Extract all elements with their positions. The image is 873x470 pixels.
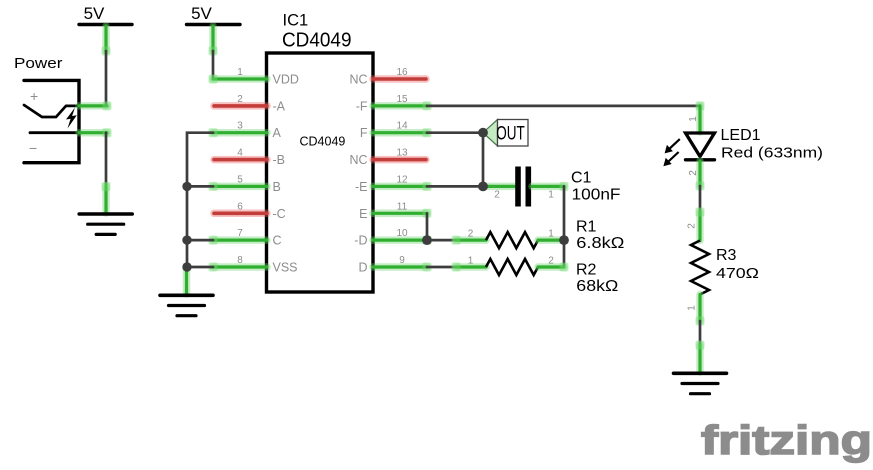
wire pin14 to OUT node	[427, 131, 483, 134]
svg-text:-D: -D	[354, 234, 367, 248]
capacitor C1	[485, 167, 621, 207]
wire LED to R3	[699, 186, 702, 212]
svg-text:R1: R1	[576, 219, 597, 236]
svg-text:2: 2	[237, 94, 243, 105]
svg-text:VSS: VSS	[273, 261, 298, 275]
power symbol 5V (left)	[79, 4, 132, 56]
wire stub to pin 8	[187, 266, 213, 269]
pin 10 -D	[354, 228, 431, 248]
svg-text:R2: R2	[576, 262, 597, 279]
svg-text:3: 3	[237, 121, 243, 132]
svg-text:5V: 5V	[191, 4, 212, 23]
svg-text:6.8kΩ: 6.8kΩ	[576, 235, 624, 252]
ground (under IC VSS)	[160, 268, 213, 316]
wire stub to pin 7	[187, 239, 213, 242]
svg-text:D: D	[358, 261, 367, 275]
svg-text:+: +	[30, 88, 38, 104]
svg-text:7: 7	[237, 228, 243, 239]
svg-text:−: −	[29, 140, 37, 156]
svg-text:1: 1	[687, 305, 698, 311]
svg-text:1: 1	[548, 190, 554, 201]
svg-text:B: B	[273, 180, 281, 194]
resistor R1	[452, 219, 625, 253]
svg-text:68kΩ: 68kΩ	[576, 278, 618, 295]
svg-text:1: 1	[548, 229, 554, 240]
wire pin11 down to pin10 node	[426, 213, 429, 240]
wire node to R1	[427, 239, 456, 242]
resistor R2	[452, 255, 619, 295]
junction at pin 5 (bus B)	[182, 182, 191, 191]
svg-text:A: A	[273, 126, 282, 140]
pin 3 A	[209, 121, 282, 141]
svg-text:fritzing: fritzing	[701, 417, 872, 463]
svg-text:E: E	[359, 207, 367, 221]
wire pin9 to R2	[427, 266, 456, 269]
svg-text:2: 2	[687, 223, 698, 229]
svg-text:5: 5	[237, 174, 243, 185]
svg-text:13: 13	[396, 148, 408, 159]
svg-text:6: 6	[237, 201, 243, 212]
svg-text:-A: -A	[273, 99, 286, 113]
ground (under power)	[79, 182, 132, 234]
wire pin12 to node	[427, 185, 483, 188]
wire bus A-B-C-VSS (left vertical)	[187, 133, 213, 267]
ground (under R3)	[674, 341, 727, 394]
svg-text:OUT: OUT	[496, 123, 525, 145]
svg-text:-E: -E	[355, 180, 368, 194]
svg-text:2: 2	[494, 190, 500, 201]
op IC1 CD4049 body	[267, 12, 374, 293]
wire OUT node down to -E row	[482, 133, 485, 187]
svg-text:-B: -B	[273, 153, 286, 167]
svg-text:9: 9	[399, 255, 405, 266]
pin 11 E	[359, 201, 431, 221]
resistor R3	[687, 208, 760, 326]
svg-text:4: 4	[237, 148, 243, 159]
pin 13 NC (no connection)	[349, 148, 426, 168]
svg-text:IC1: IC1	[283, 12, 309, 30]
svg-text:16: 16	[396, 67, 408, 78]
svg-text:LED1: LED1	[721, 127, 761, 144]
svg-text:Power: Power	[14, 55, 63, 72]
net label OUT	[483, 120, 528, 147]
svg-text:470Ω: 470Ω	[716, 265, 759, 282]
svg-text:2: 2	[468, 229, 474, 240]
svg-text:C1: C1	[571, 170, 592, 187]
svg-text:14: 14	[396, 121, 408, 132]
power symbol 5V (IC supply)	[187, 4, 241, 56]
pin 16 NC (no connection)	[349, 67, 426, 87]
wire stub to pin 5	[187, 185, 213, 188]
pin 6 -C (no connection)	[214, 201, 286, 221]
svg-text:100nF: 100nF	[572, 187, 621, 204]
pin 7 C	[209, 228, 282, 248]
svg-text:C: C	[273, 234, 282, 248]
wire 5V to power plug +	[105, 51, 108, 106]
junction OUT node at pin 14	[478, 128, 488, 138]
junction at pin 7 (bus C)	[182, 235, 191, 244]
svg-text:F: F	[360, 126, 368, 140]
wire 5V to IC pin 1	[212, 51, 215, 79]
svg-text:15: 15	[396, 94, 408, 105]
svg-text:1: 1	[468, 255, 474, 266]
svg-text:Red (633nm): Red (633nm)	[721, 145, 823, 162]
junction at pin 8 (bus VSS/ground)	[182, 262, 191, 271]
svg-text:2: 2	[548, 255, 554, 266]
junction -E node at pin 12	[478, 182, 488, 192]
svg-text:11: 11	[397, 201, 408, 212]
svg-text:2: 2	[688, 170, 699, 176]
svg-text:R3: R3	[716, 247, 737, 264]
wire R3 to ground	[699, 321, 702, 345]
svg-text:10: 10	[396, 228, 408, 239]
LED1	[663, 101, 823, 190]
svg-text:12: 12	[396, 174, 408, 185]
svg-text:VDD: VDD	[273, 73, 299, 87]
svg-text:CD4049: CD4049	[300, 135, 346, 149]
pin 4 -B (no connection)	[214, 148, 285, 168]
wire pin15 to LED	[427, 105, 700, 108]
svg-text:5V: 5V	[84, 4, 105, 23]
svg-text:NC: NC	[349, 73, 367, 87]
junction C1/R1 right node	[559, 235, 569, 245]
svg-text:8: 8	[237, 255, 243, 266]
power connector J1 "Power"	[14, 55, 112, 163]
pin 8 VSS	[209, 255, 298, 275]
pin 2 -A (no connection)	[214, 94, 286, 114]
svg-text:CD4049: CD4049	[282, 29, 352, 52]
svg-text:1: 1	[237, 67, 243, 78]
pin 14 F	[360, 121, 432, 141]
junction pin 10/11 node	[422, 235, 432, 245]
pin 15 -F	[356, 94, 432, 114]
wire C1 down to R1/R2	[563, 186, 566, 267]
pin 1 VDD	[209, 67, 299, 87]
wire power minus to ground	[105, 133, 108, 186]
svg-text:NC: NC	[349, 153, 367, 167]
pin 5 B	[209, 174, 281, 194]
svg-text:1: 1	[688, 116, 699, 122]
pin 12 -E	[355, 174, 432, 194]
svg-text:-C: -C	[273, 207, 286, 221]
svg-text:-F: -F	[356, 99, 368, 113]
pin 9 D	[358, 255, 431, 275]
